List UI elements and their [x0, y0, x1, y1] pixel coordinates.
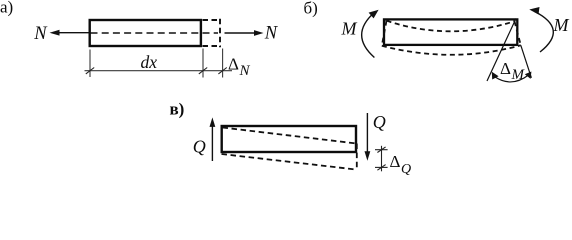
dimension line (a) — [85, 70, 233, 72]
angle line left (b) — [487, 19, 516, 82]
svg-text:в): в) — [170, 99, 185, 118]
svg-text:б): б) — [304, 0, 318, 18]
force N right arrow — [225, 30, 264, 36]
moment M left curved arrow — [362, 10, 379, 58]
force N left arrow — [50, 30, 90, 36]
sheared bottom line dashed (v) — [222, 154, 357, 170]
element rectangle (v) — [222, 126, 356, 152]
svg-text:Q: Q — [373, 112, 386, 132]
shear Q left arrow up — [210, 117, 216, 161]
svg-text:M: M — [341, 19, 358, 39]
svg-text:Q: Q — [193, 136, 206, 156]
dimension tick slashes (a) — [86, 68, 227, 74]
angle line right (b) — [521, 45, 532, 78]
element rectangle (b) — [384, 19, 517, 45]
deformed right end face dashed (b) — [515, 21, 521, 45]
moment M right curved arrow — [529, 7, 553, 52]
svg-text:N: N — [33, 24, 48, 44]
extension lines (a) — [90, 49, 223, 78]
Delta_Q dimension — [375, 146, 388, 172]
deformed left end face dashed (b) — [382, 21, 387, 46]
angle arc with arrowheads (b) — [492, 72, 532, 82]
sheared right edge dashed (v) — [356, 144, 358, 170]
deformed top curve dashed (b) — [387, 21, 515, 32]
svg-text:N: N — [264, 23, 279, 43]
element dx solid rectangle (a) — [90, 20, 201, 46]
dashed displaced end rectangle (a) — [203, 19, 221, 47]
dashed centerline (a) — [91, 32, 219, 34]
svg-text:M: M — [553, 15, 570, 35]
svg-text:а): а) — [0, 0, 13, 16]
svg-text:dx: dx — [141, 52, 158, 72]
sheared top line dashed (v) — [223, 128, 357, 144]
deformed bottom curve dashed (b) — [382, 45, 521, 54]
shear Q right arrow down — [365, 113, 371, 161]
